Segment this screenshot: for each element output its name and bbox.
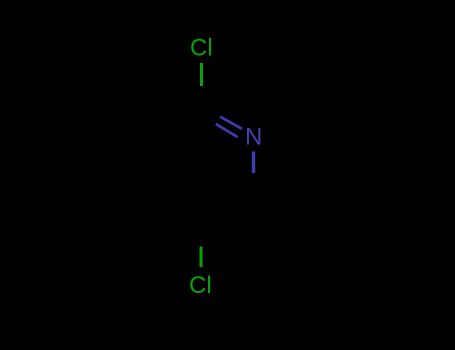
svg-text:N: N xyxy=(245,124,262,151)
double bond C1=N main line (blue half) xyxy=(220,117,242,129)
svg-text:Cl: Cl xyxy=(190,35,213,62)
double bond C1=N inner line (blue half) xyxy=(216,124,238,137)
bond C4-Cl bottom (green half) xyxy=(200,247,203,268)
svg-text:Cl: Cl xyxy=(189,272,212,299)
bond N-C3 vertical (blue half) xyxy=(252,151,256,173)
bond C1-Cl top (green half) xyxy=(200,63,203,86)
